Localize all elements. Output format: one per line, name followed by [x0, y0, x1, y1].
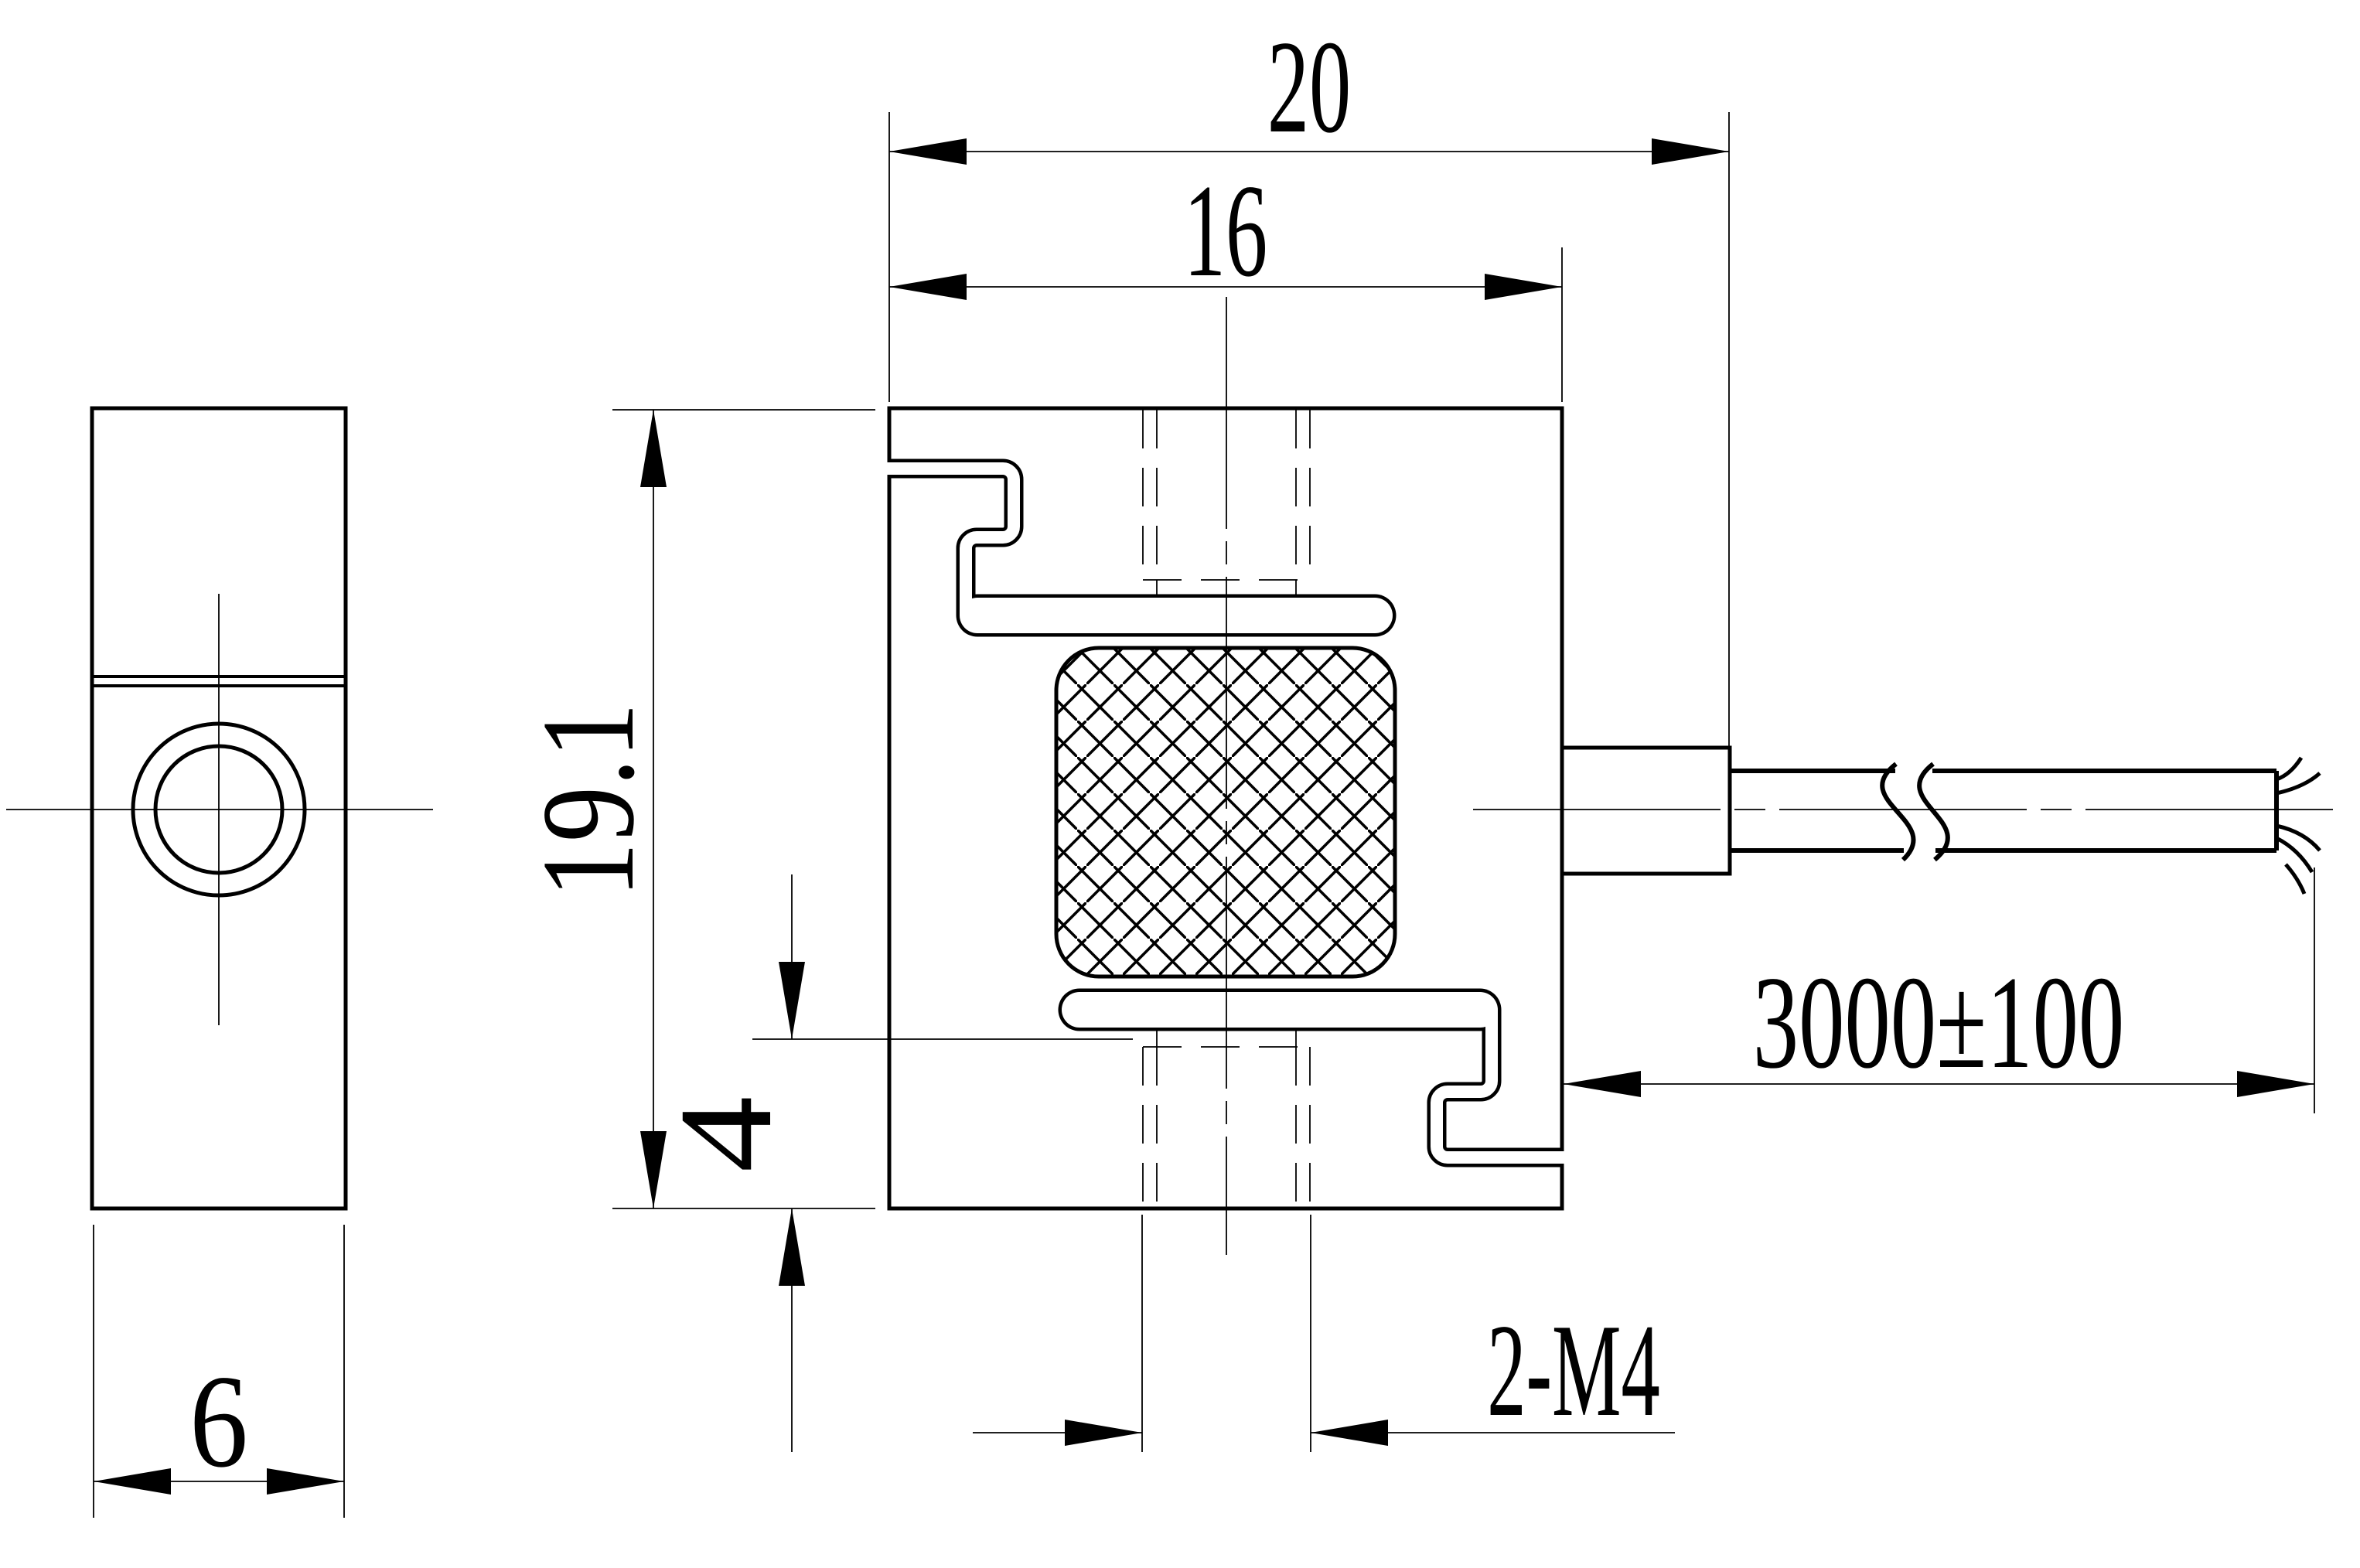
side view hole inner circle [155, 746, 282, 873]
cable gland connector [1562, 748, 1730, 874]
svg-text:20: 20 [1267, 14, 1351, 161]
svg-text:16: 16 [1184, 158, 1267, 305]
dimension 2-M4 extension lines [1142, 1215, 1311, 1452]
lower S slot channel [1437, 1010, 1562, 1157]
dimension 2-M4 left arrow [1065, 1420, 1142, 1446]
frayed wire ends [2276, 758, 2320, 894]
svg-text:3000±100: 3000±100 [1753, 948, 2124, 1096]
dimension 4 lower arrow [779, 1208, 805, 1286]
dimension 3000±100 right arrow [2237, 1071, 2314, 1097]
cable break squiggle left [1882, 764, 1913, 860]
dimension 4 feature line [752, 1038, 1133, 1040]
dimension 2-M4 left line [973, 1432, 1142, 1433]
dimension 16 left arrow [889, 274, 967, 300]
vertical centerline of holes [1226, 297, 1227, 1255]
svg-text:2-M4: 2-M4 [1487, 1297, 1660, 1444]
front view body rectangle [889, 408, 1562, 1208]
side view body rectangle [92, 408, 346, 1208]
upper hole runout lines [1157, 580, 1296, 597]
upper M4 threaded hole hidden lines [1143, 410, 1310, 580]
svg-text:19.1: 19.1 [514, 703, 662, 898]
dimension 16 extension line [1561, 247, 1563, 402]
upper slot long section [977, 595, 1375, 637]
cable break squiggle right [1919, 764, 1948, 860]
dimension 20 line [889, 151, 1729, 152]
dimension 19.1 line [653, 410, 654, 1208]
dimension 6 line [94, 1481, 344, 1482]
dimension 19.1 top arrow [640, 410, 667, 487]
cable horizontal centerline [1473, 809, 2340, 810]
dimension 19.1 extension lines [612, 410, 875, 1208]
cable first segment [1730, 771, 1904, 850]
lower hole runout lines [1157, 1029, 1296, 1047]
dimension 16 right arrow [1485, 274, 1562, 300]
side view parting double line [92, 677, 346, 686]
dimension 4 upper line [791, 874, 793, 1039]
side view hole outer circle [133, 724, 305, 895]
dimension 4 upper arrow [779, 962, 805, 1039]
dimension 20 extension lines [889, 112, 1729, 748]
dimension 20 left arrow [889, 138, 967, 165]
cable second segment [1932, 771, 2276, 850]
dimension 3000±100 left arrow [1564, 1071, 1641, 1097]
dimension 6 extension lines [94, 1225, 344, 1518]
lower M4 threaded hole hidden lines [1143, 1047, 1310, 1208]
dimension 19.1 bottom arrow [640, 1131, 667, 1208]
upper S slot channel [889, 469, 1014, 615]
dimension 6 right arrow [267, 1468, 344, 1495]
cross-hatched elastomer block [1056, 648, 1395, 977]
svg-text:4: 4 [653, 1096, 800, 1173]
svg-text:6: 6 [189, 1348, 248, 1495]
side view vertical centerline [218, 594, 220, 1025]
dimension 3000±100 extension line [2314, 868, 2315, 1113]
dimension 6 left arrow [94, 1468, 171, 1495]
dimension 2-M4 right line [1311, 1432, 1675, 1433]
side view horizontal centerline [6, 809, 433, 810]
dimension 20 right arrow [1652, 138, 1729, 165]
dimension 3000±100 line [1564, 1083, 2314, 1085]
dimension 16 line [889, 286, 1562, 288]
dimension 4 lower line [791, 1208, 793, 1452]
lower slot long section [1079, 989, 1480, 1031]
dimension 2-M4 right arrow [1311, 1420, 1388, 1446]
